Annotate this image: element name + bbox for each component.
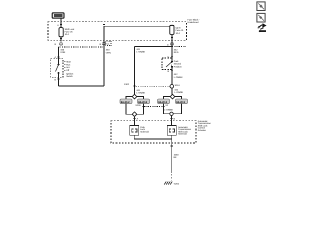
svg-text:8A-20-3: 8A-20-3	[158, 101, 167, 104]
svg-text:S203: S203	[135, 104, 141, 107]
fuse F1 (SHIFT LOCK fuse)	[59, 28, 75, 37]
pin below switch box	[168, 70, 174, 73]
ignition switch position labels	[64, 61, 74, 79]
wire from link box2 down	[137, 104, 143, 115]
connector C2 pins on riser	[100, 41, 111, 46]
link box 2	[138, 99, 150, 104]
solenoid 1 (park lock)	[130, 126, 139, 136]
svg-text:Underhood: Underhood	[188, 21, 200, 24]
svg-text:10 A: 10 A	[176, 32, 181, 35]
icon: resize box 1	[257, 2, 265, 11]
svg-text:8A-20-8: 8A-20-8	[138, 101, 147, 104]
wire up right side	[103, 26, 105, 86]
svg-text:Actuator: Actuator	[198, 129, 206, 132]
splice dot S4	[163, 104, 169, 108]
wire label 340 ORN	[60, 48, 65, 54]
in-line connector dotted link line	[59, 46, 105, 48]
wire label 340 ORN (riser)	[106, 49, 111, 55]
wire from label box to fuse block	[60, 18, 62, 28]
dotted splice link line lower	[145, 106, 163, 108]
svg-text:Position: Position	[174, 65, 183, 68]
svg-text:Ignition: Ignition	[66, 73, 74, 76]
wire from link box1 down to diamond3	[126, 104, 132, 115]
svg-text:S261: S261	[175, 84, 181, 87]
wire down to diamond1 (441)	[134, 47, 136, 95]
underhood fuse block dashed outline	[48, 22, 187, 40]
wire switch down	[58, 77, 60, 86]
wire down to splice circle	[171, 70, 173, 85]
svg-text:Solenoid: Solenoid	[140, 130, 149, 133]
svg-text:Fuse 31: Fuse 31	[176, 29, 185, 32]
svg-text:8A-20-2: 8A-20-2	[121, 101, 130, 104]
label above diamond2	[174, 89, 183, 95]
svg-text:1050: 1050	[174, 153, 180, 156]
svg-text:10 A: 10 A	[65, 33, 70, 36]
svg-text:ORN: ORN	[60, 51, 65, 54]
wire label above diamond1	[136, 89, 145, 94]
pin B below switch	[55, 78, 60, 81]
ground wire down	[171, 139, 173, 173]
actuator label text	[198, 120, 212, 132]
distribution diamond3	[132, 112, 137, 117]
svg-text:L-GN/BK: L-GN/BK	[136, 50, 145, 53]
internal ground rail	[134, 135, 172, 139]
pin A at fuse block top	[57, 24, 62, 27]
shift lock actuator dashed box	[111, 121, 196, 143]
svg-text:Ign E: Ign E	[176, 26, 182, 29]
wire connector to ignition switch	[55, 47, 60, 60]
fuse block label (Fuse Block - Underhood)	[188, 18, 200, 24]
diamond2 stubs to link boxes	[164, 97, 182, 99]
fuse F2 (IGN E fuse)	[170, 25, 184, 35]
wire label 441 L-GN/BK	[136, 48, 145, 54]
dotted splice link line	[136, 85, 170, 87]
in-line connector pins on left wire	[55, 43, 63, 46]
distribution diamond2	[170, 94, 175, 99]
wire above diamond2	[171, 88, 173, 94]
wire label 342 RED	[174, 48, 179, 54]
splice circle S2	[170, 84, 180, 88]
svg-text:S102: S102	[124, 83, 130, 86]
svg-text:Off: Off	[66, 69, 69, 72]
svg-text:Neutral: Neutral	[174, 63, 182, 66]
wire label L-GN/BK lower	[164, 108, 173, 111]
diamond1 stubs to link boxes	[126, 97, 144, 99]
ignition switch symbol	[56, 60, 60, 77]
wire bottom horizontal	[59, 85, 105, 87]
link box 4	[176, 99, 188, 104]
svg-text:L-GN/BK: L-GN/BK	[136, 92, 145, 95]
solenoid2 labels	[178, 126, 192, 136]
wire from link box3 down to splice circle2	[164, 104, 170, 114]
ground wire label 1050 BK	[174, 153, 180, 159]
wire diamond3 to solenoid1	[133, 117, 138, 126]
park/neutral switch labels	[174, 60, 183, 69]
pins at block bottom (right)	[167, 43, 174, 47]
ignition switch dashed box	[51, 59, 63, 78]
wire label 442 L-GN/BK	[174, 73, 183, 79]
svg-text:Solenoid: Solenoid	[178, 133, 187, 136]
splice dot S1	[124, 83, 135, 87]
label box M/T	[52, 13, 64, 18]
park/neutral position switch dashed box	[162, 58, 172, 70]
svg-text:G202: G202	[174, 182, 180, 185]
ground wire dashed tail	[171, 174, 173, 181]
wire to park/neutral switch	[168, 47, 174, 59]
wire circle2 down into actuator box	[170, 116, 175, 126]
svg-text:Fuse Block -: Fuse Block -	[188, 18, 200, 21]
svg-text:L-GN/BK: L-GN/BK	[164, 108, 173, 111]
ground symbol G202	[164, 182, 180, 186]
wire F2 down to block bottom	[171, 25, 173, 46]
bus wire top	[104, 25, 172, 27]
svg-text:RED: RED	[174, 51, 179, 54]
in-line connector dotted (right section)	[172, 46, 187, 48]
svg-text:Switch: Switch	[66, 75, 73, 78]
wire fuse F1 to block bottom	[60, 37, 62, 42]
solenoid1 labels	[140, 126, 149, 134]
park/neutral switch symbol	[166, 58, 173, 70]
wire branch horizontal from relay feed	[135, 46, 173, 48]
icon: resize box 2	[257, 13, 265, 22]
solenoid 2 (shift lock solenoid)	[167, 126, 176, 136]
icon: curved arrow	[258, 23, 267, 32]
splice dot S3	[135, 104, 144, 108]
splice circle2	[170, 112, 173, 115]
svg-text:Start: Start	[66, 61, 71, 64]
svg-text:ORN: ORN	[106, 51, 111, 54]
svg-text:L-GN/BK: L-GN/BK	[174, 91, 183, 94]
svg-text:8A-20-9: 8A-20-9	[176, 101, 185, 104]
svg-text:L-GN/BK: L-GN/BK	[174, 76, 183, 79]
link box 1	[120, 99, 132, 104]
wire from link box4 down to splice circle2	[173, 104, 181, 114]
distribution diamond1	[132, 94, 137, 99]
link box 3	[158, 99, 170, 104]
